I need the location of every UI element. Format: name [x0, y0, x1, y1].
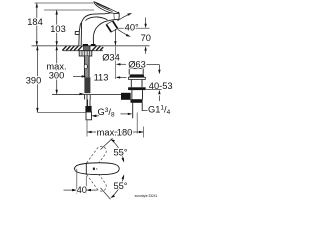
- svg-text:300: 300: [49, 70, 65, 80]
- drain lower dark bar: [131, 99, 143, 103]
- dimension max.180: [86, 120, 88, 137]
- svg-text:eurostyle 33241: eurostyle 33241: [135, 194, 158, 198]
- hose lower white section: [85, 95, 91, 106]
- svg-text:Ø63: Ø63: [128, 59, 146, 69]
- faucet body above deck: [79, 14, 108, 46]
- lever detail dot: [93, 167, 95, 170]
- dimension 40-53 (outside arrows): [146, 89, 162, 91]
- svg-text:Ø34: Ø34: [102, 53, 120, 63]
- dimension 103 line: [56, 10, 58, 46]
- G1 1/4 leader tick: [142, 109, 147, 111]
- drain flange dark bar: [130, 74, 144, 77]
- lever handle (side view): [94, 2, 119, 14]
- 40-53 bottom extension line (over halo): [146, 89, 162, 91]
- rod guide oval on shank: [84, 64, 87, 69]
- G3/8 leader arrow (over halo): [92, 115, 97, 117]
- extension line hose end (390 bottom, y=112.4): [37, 111, 86, 113]
- top view: centerline tick at lever tip with arrow: [74, 167, 82, 169]
- threaded shank tube: [84, 56, 89, 78]
- mounting nut below deck: [79, 51, 92, 56]
- svg-text:max.180: max.180: [97, 127, 133, 137]
- deck top line: [32, 45, 150, 47]
- base shadow on deck: [83, 44, 88, 46]
- swing arc lower with arrows: [112, 176, 124, 198]
- spray angle fan 40deg : lower arc: [118, 29, 130, 36]
- extension line spout level (y=10): [44, 9, 94, 11]
- swing arc upper with arrows: [112, 140, 124, 162]
- deck hatching: [62, 46, 103, 51]
- top view: dashed lever rotated down 55: [84, 165, 106, 191]
- svg-text:103: 103: [50, 24, 66, 34]
- 55deg extension line lower: [101, 188, 111, 199]
- pop-up waste drain: plug cap: [129, 68, 143, 74]
- svg-text:70: 70: [141, 33, 151, 43]
- dimension 113: [73, 75, 82, 77]
- arrow pointing right at tailpipe (y=114): [121, 113, 129, 115]
- svg-text:113: 113: [94, 73, 109, 83]
- Ø63 label row: left arrow at stream ext line: [120, 63, 127, 65]
- drain body lower: [132, 90, 143, 99]
- svg-text:G3/8: G3/8: [98, 107, 115, 119]
- small arrow on rod pointing right at faucet tube: [80, 93, 85, 95]
- dimension 390 line: [36, 46, 38, 113]
- slab/aerator joint line: [113, 13, 116, 20]
- tailpipe centerline: [136, 113, 138, 134]
- svg-text:40: 40: [77, 185, 87, 195]
- dimension max300 line: [56, 46, 58, 94]
- G3/8 leader arrow: [97, 115, 100, 117]
- overlay lines drawn above text halos: [72, 90, 161, 192]
- svg-text:55°: 55°: [113, 148, 127, 158]
- dimension 184 line: [36, 3, 38, 46]
- G3/8 hose nut (dark): [85, 106, 91, 112]
- dimension 70 (outside arrows): [118, 27, 150, 29]
- drain tailpipe: [133, 103, 143, 119]
- spray angle fan 40deg : upper arc: [117, 14, 131, 21]
- drain nut (dark): [128, 87, 146, 90]
- svg-text:55°: 55°: [113, 181, 127, 191]
- top view: dashed lever rotated up 55: [84, 146, 106, 172]
- svg-text:390: 390: [26, 75, 42, 85]
- aerator (tilted outlet): [106, 21, 117, 32]
- drain side fitting (rod connection, dark): [121, 93, 131, 100]
- pop-up rod (horizontal, y=94.4): [52, 93, 122, 95]
- spout head slab: [104, 12, 120, 21]
- Ø63 label row: right line to 40-53 dim line: [147, 64, 160, 66]
- shank crossing deck band: [84, 46, 90, 51]
- svg-text:184: 184: [27, 17, 43, 27]
- thin hose tube: [88, 100, 90, 107]
- water stream centerline + arrow onto deck: [114, 29, 116, 45]
- pop-up knob (rear of body): [75, 31, 79, 34]
- svg-text:G11/4: G11/4: [148, 105, 171, 117]
- extension line top (lever tip level, y=3): [35, 2, 94, 4]
- deck bottom line: [63, 50, 103, 52]
- flexible hose (braided, dark): [84, 78, 90, 94]
- svg-text:40°: 40°: [125, 22, 139, 32]
- top view: lever (solid, teardrop): [75, 163, 120, 175]
- 55deg extension line upper: [101, 138, 113, 149]
- hose connector end: [86, 112, 92, 120]
- lever knob section line: [85, 163, 87, 175]
- 40 dim arrowheads (over halo): [72, 189, 77, 191]
- drain body upper: [131, 80, 142, 88]
- 40 dim (top view): [76, 169, 78, 194]
- drain flange lip: [129, 77, 146, 79]
- stream ext line below deck (for 113): [114, 47, 116, 80]
